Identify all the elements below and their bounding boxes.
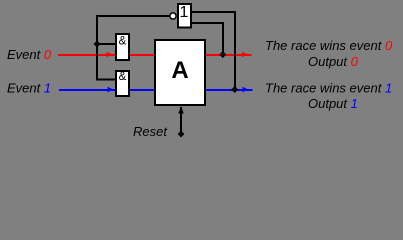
inverter U1 box "1" xyxy=(178,4,191,28)
node diamond at reset bottom xyxy=(178,131,185,138)
wire: blue output from A xyxy=(206,89,253,91)
svg-text:Reset: Reset xyxy=(133,124,168,139)
AND gate U2 box xyxy=(116,34,129,60)
arrowhead blue into AND U3 xyxy=(108,87,114,92)
svg-text:A: A xyxy=(171,57,188,84)
svg-text:1: 1 xyxy=(180,4,189,21)
arrowhead blue output xyxy=(243,87,249,92)
wire: red between AND U2 and A xyxy=(129,54,154,56)
wire: left feedback vertical xyxy=(96,15,98,80)
svg-text:The race wins event 1: The race wins event 1 xyxy=(265,81,392,96)
arrowhead red into AND U2 xyxy=(107,52,113,57)
node junction diamond on blue output wire xyxy=(231,86,238,93)
wire: Reset vertical xyxy=(180,107,182,134)
node junction diamond on feedback vertical xyxy=(94,41,101,48)
node junction diamond on red output wire xyxy=(219,51,226,58)
wire: feedback branch to AND gate U2 input xyxy=(96,43,115,45)
wire: Event 0 red input line xyxy=(58,54,115,56)
wire: inverter lower output horizontal xyxy=(191,22,224,24)
svg-text:Output 0: Output 0 xyxy=(308,54,359,69)
wire: right vertical x222 down to red output xyxy=(222,22,224,55)
arbiter block A box xyxy=(155,40,205,105)
svg-text:&: & xyxy=(119,36,127,48)
wire: blue between AND U3 and A xyxy=(129,89,154,91)
svg-text:Event 1: Event 1 xyxy=(7,81,51,96)
svg-text:The race wins event 0: The race wins event 0 xyxy=(265,38,393,53)
arrowhead reset up into A xyxy=(178,107,184,114)
inverter U1 input bubble xyxy=(170,13,176,19)
wire: right vertical x234 down to blue output xyxy=(234,11,236,90)
svg-text:Output 1: Output 1 xyxy=(308,96,358,111)
arrowhead red output xyxy=(242,52,248,57)
wire: feedback branch to AND gate U3 input xyxy=(96,79,115,81)
svg-text:Event 0: Event 0 xyxy=(7,47,52,62)
wire: feedback top horizontal to inverter input xyxy=(96,15,170,17)
wire: Event 1 blue input line xyxy=(59,89,116,91)
wire: inverter upper output horizontal xyxy=(191,11,236,13)
svg-text:&: & xyxy=(119,71,127,83)
AND gate U3 box xyxy=(116,71,129,96)
wire: red output from A xyxy=(206,54,252,56)
